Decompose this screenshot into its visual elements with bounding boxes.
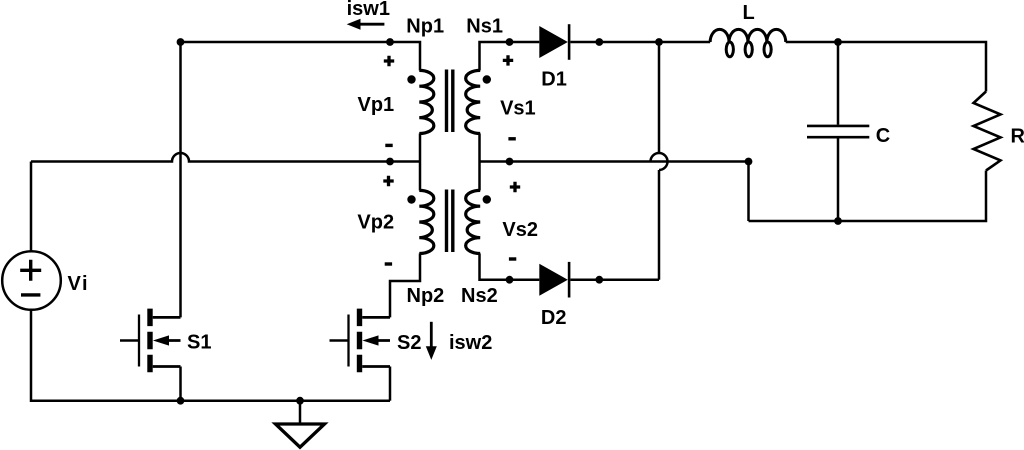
plus Vs2	[510, 182, 520, 192]
wire cap top	[837, 42, 840, 125]
svg-text:isw1: isw1	[347, 0, 390, 20]
wire D1 cathode to L	[571, 41, 711, 44]
dot Np2 polarity	[407, 195, 415, 203]
transformer secondary winding Ns1	[466, 70, 481, 133]
node D1 cathode	[595, 38, 603, 46]
wire primary mid	[419, 134, 422, 191]
dot Ns1 polarity	[483, 75, 491, 83]
svg-text:isw2: isw2	[449, 332, 492, 354]
plus Vp1	[384, 56, 394, 66]
svg-text:Vs2: Vs2	[502, 219, 538, 241]
voltage source Vi	[2, 251, 61, 310]
wire cap bottom	[837, 139, 840, 222]
wire R bottom	[749, 171, 987, 222]
svg-text:Vi: Vi	[68, 273, 90, 295]
wire Ns2 to D2	[480, 254, 540, 280]
svg-text:Vp2: Vp2	[357, 211, 394, 233]
diode D1	[539, 24, 569, 60]
wire diode common vertical lower	[658, 170, 661, 280]
wire vertical hop over center tap	[651, 153, 668, 170]
resistor R	[974, 92, 1001, 171]
node return corner	[745, 158, 753, 166]
wire Vi bottom and ground rail	[31, 310, 390, 401]
plus Vp2	[383, 176, 393, 186]
wire Np2 to S2 drain	[390, 254, 420, 318]
wire Ns1 top to D1	[480, 42, 540, 70]
svg-text:Vp1: Vp1	[358, 94, 395, 116]
minus Vp2	[385, 262, 392, 265]
node Np1 top	[386, 38, 394, 46]
node Ns2 bottom	[506, 276, 514, 284]
transformer primary winding Np1	[419, 70, 434, 133]
minus Vp1	[385, 144, 392, 147]
svg-text:Np2: Np2	[407, 285, 445, 307]
wire secondary mid	[478, 134, 481, 191]
svg-text:Ns1: Ns1	[466, 16, 503, 38]
svg-text:S2: S2	[397, 332, 421, 354]
node C bottom	[834, 217, 842, 225]
node top-left	[177, 38, 185, 46]
svg-text:Ns2: Ns2	[461, 285, 498, 307]
wire center tap primary with hop	[31, 153, 420, 162]
svg-text:R: R	[1011, 126, 1024, 148]
svg-text:L: L	[743, 2, 755, 24]
node L-C	[834, 38, 842, 46]
node diode common	[655, 38, 663, 46]
minus Vs2	[509, 257, 516, 260]
capacitor C	[807, 126, 869, 137]
wire diode common vertical upper	[658, 42, 661, 153]
dot Np1 polarity	[407, 75, 415, 83]
node Ns1 top	[506, 38, 514, 46]
transformer primary winding Np2	[419, 190, 434, 253]
node secondary center tap	[506, 158, 514, 166]
svg-text:Vs1: Vs1	[500, 98, 536, 120]
wire D2 cathode	[571, 278, 660, 281]
svg-text:D1: D1	[541, 68, 567, 90]
arrow isw1	[347, 19, 385, 30]
svg-text:S1: S1	[187, 332, 211, 354]
svg-text:D2: D2	[541, 307, 567, 329]
transistor S1	[120, 309, 181, 373]
node ground	[296, 397, 304, 405]
svg-text:C: C	[876, 125, 890, 147]
node S1 source	[177, 397, 185, 405]
transformer core	[447, 70, 453, 253]
node D2 cathode	[595, 276, 603, 284]
inductor L	[710, 29, 786, 42]
ground	[276, 401, 325, 448]
wire Vi top	[30, 162, 33, 252]
arrow isw2	[426, 322, 437, 360]
wire secondary center tap	[480, 162, 749, 222]
minus Vs1	[508, 137, 515, 140]
wire top-left rail	[181, 42, 421, 70]
plus Vs1	[503, 55, 513, 65]
transformer secondary winding Ns2	[466, 190, 481, 253]
wire S1 drain vertical	[179, 42, 182, 317]
dot Ns2 polarity	[483, 195, 491, 203]
diode D2	[539, 262, 569, 298]
svg-text:Np1: Np1	[406, 15, 444, 37]
node primary center tap	[386, 158, 394, 166]
wire S1 source to ground rail	[179, 367, 182, 401]
wire L to R corner	[786, 42, 986, 92]
wire S2 source to ground rail	[389, 367, 392, 401]
transistor S2	[330, 309, 391, 373]
